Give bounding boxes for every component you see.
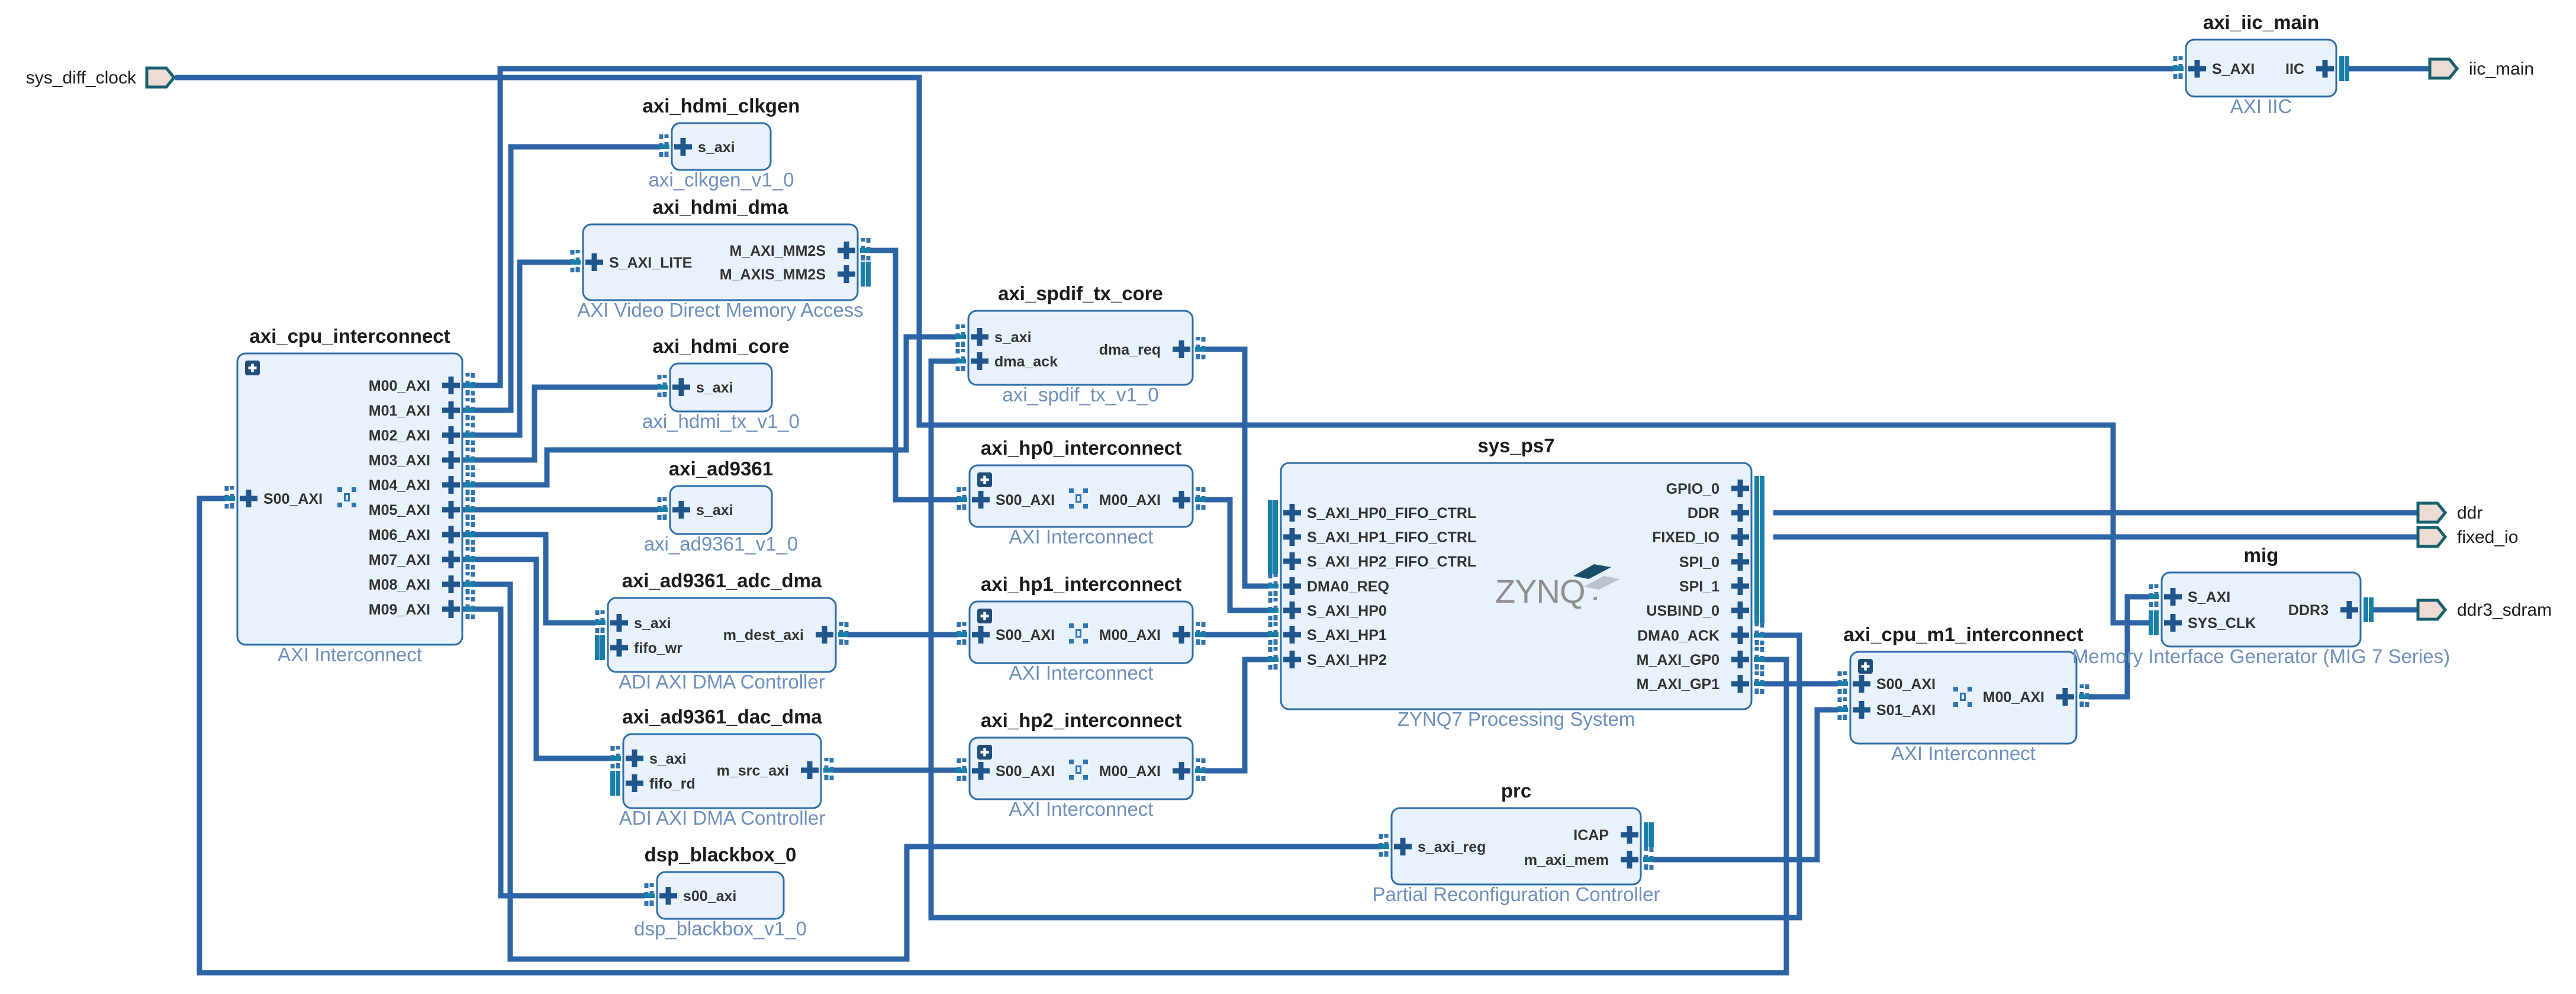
- svg-text:S00_AXI: S00_AXI: [1876, 676, 1936, 693]
- wire axi_cpu_interconnect M06_AXI to axi_ad9361_adc_dma s_axi: [462, 535, 596, 623]
- svg-text:dsp_blackbox_0: dsp_blackbox_0: [645, 844, 797, 866]
- wire axi_cpu_interconnect M05_AXI to axi_ad9361 s_axi: [462, 507, 658, 513]
- block axi_iic_main: [2173, 11, 2347, 117]
- external port iic_main: [2430, 59, 2534, 79]
- svg-text:Memory Interface Generator (MI: Memory Interface Generator (MIG 7 Series…: [2072, 645, 2450, 667]
- svg-text:DDR3: DDR3: [2288, 602, 2329, 619]
- svg-text:S_AXI: S_AXI: [2188, 589, 2230, 606]
- wire axi_cpu_interconnect M08_AXI to prc s_axi_reg: [462, 584, 1380, 959]
- svg-text:sys_diff_clock: sys_diff_clock: [26, 68, 137, 88]
- svg-text:USBIND_0: USBIND_0: [1646, 603, 1720, 619]
- svg-text:s_axi: s_axi: [634, 615, 671, 632]
- svg-text:fixed_io: fixed_io: [2457, 527, 2518, 547]
- svg-text:s_axi: s_axi: [698, 139, 735, 156]
- svg-text:S00_AXI: S00_AXI: [996, 492, 1055, 509]
- svg-text:M06_AXI: M06_AXI: [369, 527, 430, 543]
- svg-text:AXI Interconnect: AXI Interconnect: [1009, 798, 1154, 820]
- svg-text:dsp_blackbox_v1_0: dsp_blackbox_v1_0: [634, 918, 807, 940]
- wire axi_cpu_interconnect M09_AXI to dsp_blackbox_0 s00_axi: [462, 609, 645, 896]
- svg-text:M09_AXI: M09_AXI: [369, 601, 430, 618]
- svg-text:axi_cpu_interconnect: axi_cpu_interconnect: [249, 325, 450, 347]
- block axi_hdmi_dma: [571, 196, 870, 321]
- svg-text:M05_AXI: M05_AXI: [369, 502, 430, 519]
- svg-text:M_AXI_GP0: M_AXI_GP0: [1637, 652, 1720, 668]
- wire axi_cpu_interconnect M07_AXI to axi_ad9361_dac_dma s_axi: [462, 559, 611, 758]
- svg-text:IIC: IIC: [2285, 61, 2304, 78]
- svg-text:axi_hp2_interconnect: axi_hp2_interconnect: [981, 709, 1181, 731]
- svg-text:AXI IIC: AXI IIC: [2230, 95, 2292, 117]
- svg-text:ddr3_sdram: ddr3_sdram: [2457, 600, 2552, 620]
- block axi_hp1_interconnect: [957, 573, 1205, 684]
- svg-text:DMA0_REQ: DMA0_REQ: [1307, 578, 1389, 595]
- block mig: [2072, 544, 2450, 667]
- svg-text:SPI_1: SPI_1: [1679, 578, 1720, 595]
- svg-text:M07_AXI: M07_AXI: [369, 552, 430, 568]
- svg-text:S_AXI_LITE: S_AXI_LITE: [609, 255, 692, 271]
- svg-text:S_AXI: S_AXI: [2212, 61, 2255, 78]
- svg-text:S_AXI_HP1: S_AXI_HP1: [1307, 627, 1387, 644]
- svg-text:axi_hdmi_core: axi_hdmi_core: [652, 335, 789, 357]
- svg-text:S_AXI_HP0: S_AXI_HP0: [1307, 603, 1387, 619]
- svg-text:sys_ps7: sys_ps7: [1477, 435, 1554, 456]
- wire sys_ps7 DDR to ddr port: [1773, 510, 2418, 516]
- block dsp_blackbox_0: [634, 844, 807, 940]
- wire axi_cpu_interconnect M03_AXI to axi_hdmi_core s_axi: [462, 387, 658, 460]
- svg-text:S00_AXI: S00_AXI: [996, 627, 1055, 644]
- svg-text:M00_AXI: M00_AXI: [1983, 689, 2044, 706]
- svg-text:axi_iic_main: axi_iic_main: [2203, 11, 2319, 33]
- svg-text:ZYNQ: ZYNQ: [1495, 572, 1585, 610]
- svg-text:fifo_wr: fifo_wr: [634, 640, 682, 657]
- svg-text:M_AXI_MM2S: M_AXI_MM2S: [729, 243, 826, 259]
- wire axi_hdmi_dma M_AXI_MM2S to axi_hp0_interconnect S00_AXI: [870, 250, 958, 500]
- svg-text:M03_AXI: M03_AXI: [369, 452, 430, 469]
- svg-text:dma_req: dma_req: [1099, 342, 1161, 358]
- svg-text:mig: mig: [2244, 544, 2279, 566]
- svg-text:AXI Interconnect: AXI Interconnect: [1009, 526, 1154, 548]
- wire sys_ps7 M_AXI_GP1 to axi_cpu_m1_interconnect S00_AXI: [1763, 681, 1838, 687]
- block axi_spdif_tx_core: [956, 282, 1205, 406]
- svg-text:M00_AXI: M00_AXI: [1099, 763, 1161, 780]
- wire axi_hp2_interconnect M00_AXI to sys_ps7 S_AXI_HP2: [1205, 660, 1269, 771]
- svg-text:M01_AXI: M01_AXI: [369, 403, 430, 419]
- block axi_ad9361_adc_dma: [595, 570, 848, 693]
- svg-text:prc: prc: [1501, 780, 1531, 802]
- svg-text:axi_hp0_interconnect: axi_hp0_interconnect: [981, 437, 1181, 459]
- svg-text:s00_axi: s00_axi: [683, 888, 736, 905]
- wire sys_diff_clock to mig SYS_CLK: [175, 78, 2149, 623]
- svg-text:SPI_0: SPI_0: [1679, 554, 1720, 571]
- external port ddr3_sdram: [2418, 600, 2552, 620]
- wire axi_ad9361_adc_dma m_dest_axi to axi_hp1_interconnect S00_AXI: [848, 632, 958, 638]
- svg-text:S_AXI_HP2: S_AXI_HP2: [1307, 652, 1387, 668]
- svg-text:M_AXIS_MM2S: M_AXIS_MM2S: [720, 266, 826, 283]
- block axi_ad9361_dac_dma: [611, 706, 833, 829]
- svg-text:axi_spdif_tx_core: axi_spdif_tx_core: [998, 282, 1163, 304]
- wire axi_hp1_interconnect M00_AXI to sys_ps7 S_AXI_HP1: [1205, 632, 1269, 638]
- svg-text:M_AXI_GP1: M_AXI_GP1: [1637, 676, 1720, 693]
- wire sys_ps7 M_AXI_GP0 to axi_cpu_interconnect S00_AXI: [199, 498, 1786, 973]
- svg-text:M00_AXI: M00_AXI: [369, 378, 430, 394]
- wire axi_spdif_tx_core dma_req to sys_ps7 DMA0_REQ: [1205, 349, 1269, 586]
- wire axi_cpu_interconnect M04_AXI to axi_spdif_tx_core s_axi: [462, 337, 957, 485]
- svg-text:s_axi_reg: s_axi_reg: [1418, 839, 1486, 855]
- svg-text:s_axi: s_axi: [696, 379, 733, 396]
- svg-text:axi_clkgen_v1_0: axi_clkgen_v1_0: [649, 169, 794, 191]
- svg-text:DMA0_ACK: DMA0_ACK: [1637, 628, 1720, 644]
- wire sys_ps7 FIXED_IO to fixed_io port: [1773, 535, 2418, 540]
- svg-text:axi_ad9361_dac_dma: axi_ad9361_dac_dma: [622, 706, 822, 728]
- svg-text:M04_AXI: M04_AXI: [369, 477, 430, 494]
- svg-text:ADI AXI DMA Controller: ADI AXI DMA Controller: [619, 671, 825, 693]
- svg-text:m_axi_mem: m_axi_mem: [1524, 852, 1609, 868]
- svg-text:m_src_axi: m_src_axi: [717, 763, 789, 779]
- svg-text:m_dest_axi: m_dest_axi: [723, 627, 804, 644]
- svg-text:ddr: ddr: [2457, 503, 2482, 523]
- svg-text:Partial Reconfiguration Contro: Partial Reconfiguration Controller: [1372, 883, 1660, 905]
- svg-text:axi_hp1_interconnect: axi_hp1_interconnect: [981, 573, 1181, 595]
- svg-text:axi_ad9361_adc_dma: axi_ad9361_adc_dma: [622, 570, 822, 591]
- svg-text:ICAP: ICAP: [1573, 827, 1609, 844]
- block axi_hdmi_clkgen: [643, 95, 800, 191]
- wire mig DDR3 to ddr3_sdram port: [2370, 607, 2418, 613]
- wire sys_ps7 DMA0_ACK to axi_spdif_tx_core dma_ack: [931, 361, 1799, 918]
- external port sys_diff_clock: [26, 68, 174, 88]
- wire axi_cpu_interconnect M01_AXI to axi_hdmi_clkgen s_axi: [462, 147, 660, 410]
- svg-text:axi_hdmi_dma: axi_hdmi_dma: [652, 196, 788, 218]
- svg-text:axi_spdif_tx_v1_0: axi_spdif_tx_v1_0: [1002, 384, 1158, 406]
- svg-text:S01_AXI: S01_AXI: [1876, 702, 1936, 719]
- svg-text:fifo_rd: fifo_rd: [649, 776, 695, 792]
- block sys_ps7: [1268, 435, 1764, 730]
- svg-text:M08_AXI: M08_AXI: [369, 577, 430, 593]
- svg-text:s_axi: s_axi: [696, 502, 733, 519]
- svg-text:axi_hdmi_clkgen: axi_hdmi_clkgen: [643, 95, 800, 117]
- svg-text:AXI Interconnect: AXI Interconnect: [278, 644, 422, 665]
- external port fixed_io: [2418, 527, 2518, 547]
- svg-text:M00_AXI: M00_AXI: [1099, 492, 1161, 509]
- svg-text:S00_AXI: S00_AXI: [996, 763, 1055, 780]
- wire axi_cpu_interconnect M02_AXI to axi_hdmi_dma S_AXI_LITE: [462, 262, 571, 435]
- svg-text:ZYNQ7 Processing System: ZYNQ7 Processing System: [1398, 708, 1635, 730]
- svg-text:ADI AXI DMA Controller: ADI AXI DMA Controller: [619, 807, 825, 829]
- svg-text:M02_AXI: M02_AXI: [369, 427, 430, 444]
- svg-text:FIXED_IO: FIXED_IO: [1652, 529, 1720, 546]
- block axi_ad9361: [644, 458, 798, 555]
- svg-text:iic_main: iic_main: [2469, 59, 2534, 79]
- wire prc m_axi_mem to axi_cpu_m1_interconnect S01_AXI: [1653, 710, 1838, 860]
- svg-text:S_AXI_HP2_FIFO_CTRL: S_AXI_HP2_FIFO_CTRL: [1307, 554, 1476, 570]
- block axi_hp0_interconnect: [957, 437, 1205, 548]
- block axi_cpu_interconnect: [225, 325, 475, 665]
- svg-text:axi_ad9361: axi_ad9361: [669, 458, 773, 480]
- svg-text:GPIO_0: GPIO_0: [1666, 481, 1720, 497]
- svg-text:axi_cpu_m1_interconnect: axi_cpu_m1_interconnect: [1843, 623, 2083, 645]
- svg-text:S00_AXI: S00_AXI: [263, 491, 323, 507]
- wire axi_hp0_interconnect M00_AXI to sys_ps7 S_AXI_HP0: [1205, 500, 1269, 610]
- svg-text:s_axi: s_axi: [994, 329, 1032, 346]
- svg-text:AXI Interconnect: AXI Interconnect: [1009, 662, 1154, 684]
- wire axi_ad9361_dac_dma m_src_axi to axi_hp2_interconnect S00_AXI: [833, 768, 958, 773]
- svg-text:AXI Interconnect: AXI Interconnect: [1891, 742, 2036, 764]
- block axi_cpu_m1_interconnect: [1838, 623, 2089, 764]
- svg-text:DDR: DDR: [1688, 505, 1720, 522]
- external port ddr: [2418, 503, 2482, 523]
- svg-text:dma_ack: dma_ack: [994, 353, 1058, 370]
- ZYNQ logo: [1495, 564, 1620, 610]
- svg-text:M00_AXI: M00_AXI: [1099, 627, 1161, 644]
- svg-text:S_AXI_HP1_FIFO_CTRL: S_AXI_HP1_FIFO_CTRL: [1307, 529, 1476, 546]
- svg-text:S_AXI_HP0_FIFO_CTRL: S_AXI_HP0_FIFO_CTRL: [1307, 505, 1476, 522]
- block axi_hdmi_core: [642, 335, 800, 432]
- svg-text:AXI Video Direct Memory Access: AXI Video Direct Memory Access: [577, 299, 864, 321]
- block prc: [1372, 780, 1660, 905]
- svg-text:SYS_CLK: SYS_CLK: [2188, 615, 2256, 632]
- svg-text:axi_hdmi_tx_v1_0: axi_hdmi_tx_v1_0: [642, 410, 800, 432]
- wire axi_cpu_m1_interconnect M00_AXI to mig S_AXI: [2088, 597, 2149, 697]
- svg-text:s_axi: s_axi: [649, 751, 687, 767]
- wire axi_cpu_interconnect M00_AXI to axi_iic_main S_AXI: [462, 69, 2174, 385]
- wire axi_iic_main IIC to iic_main port: [2346, 66, 2430, 72]
- block axi_hp2_interconnect: [957, 709, 1205, 820]
- svg-text:axi_ad9361_v1_0: axi_ad9361_v1_0: [644, 533, 798, 555]
